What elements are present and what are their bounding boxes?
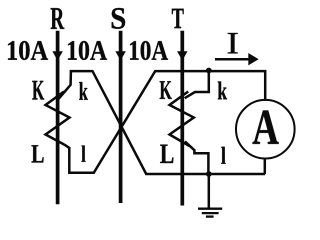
ground bar 1 <box>198 208 222 210</box>
label l of CT2: l <box>221 147 225 164</box>
ground bar 2 <box>202 212 219 214</box>
phase line R <box>56 31 60 205</box>
current arrow I shaft <box>215 58 250 61</box>
wire: CT1 k-lead, upper-left horizontal, crossing diagonal down, bottom wire to ammeter <box>58 71 265 174</box>
wire: CT1 l-lead vertical, lower-left horizontal, crossing diagonal up, top wire to ammeter <box>64 71 265 173</box>
junction dot at k of CT2 <box>206 68 212 74</box>
label S: S <box>112 8 125 29</box>
label k of CT2: k <box>218 82 227 100</box>
label L of CT2: L <box>160 145 173 163</box>
ammeter circle U1 <box>236 100 295 159</box>
wire: CT2 k-lead to top junction <box>185 70 209 98</box>
wire: CT2 l-lead to bottom junction <box>185 141 209 174</box>
label K of CT1: K <box>32 81 44 100</box>
label A ammeter: A <box>253 111 279 144</box>
CT1 winding zigzag on phase R <box>46 92 70 145</box>
junction dot at l of CT2 / ground tap <box>206 171 212 177</box>
label l of CT1: l <box>81 145 85 161</box>
arrowhead on phase R <box>52 51 62 60</box>
arrowhead on phase S <box>115 51 125 60</box>
ground bar 3 <box>206 215 214 217</box>
label I current: I <box>228 33 238 53</box>
wire: ground lead <box>208 174 211 208</box>
label K of CT2: K <box>160 81 172 99</box>
label L of CT1: L <box>32 145 44 162</box>
label R: R <box>51 8 65 29</box>
label 10A fuse 3: 10A <box>130 41 168 60</box>
arrowhead on phase T <box>177 51 187 60</box>
label k of CT1: k <box>79 82 88 100</box>
label 10A fuse 2: 10A <box>68 41 107 60</box>
label T: T <box>172 9 184 28</box>
phase line T <box>180 31 184 206</box>
current arrowhead I <box>248 53 258 65</box>
phase line S <box>119 31 123 203</box>
label 10A fuse 1: 10A <box>8 41 48 60</box>
wire: ammeter bottom stub <box>264 158 267 174</box>
CT2 winding zigzag on phase T <box>170 92 194 147</box>
